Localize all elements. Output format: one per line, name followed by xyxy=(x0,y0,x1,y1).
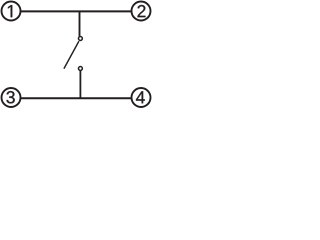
terminal 2 xyxy=(132,2,151,21)
wire: top (terminal 1 to terminal 2) xyxy=(20,10,131,12)
wire: vertical stub from switch lower contact to bottom wire xyxy=(79,71,81,98)
switch lower contact (open circle) xyxy=(78,67,82,71)
terminal 3 xyxy=(2,88,21,107)
switch lever (open position) xyxy=(64,41,79,68)
wire: bottom (terminal 3 to terminal 4) xyxy=(20,97,131,99)
switch upper contact (open circle) xyxy=(78,37,82,41)
wire: vertical stub from top wire to switch upper contact xyxy=(79,11,81,36)
terminal 4 xyxy=(132,88,151,107)
terminal 1 xyxy=(2,2,21,21)
